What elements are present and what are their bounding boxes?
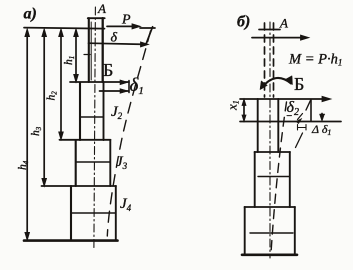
svg-text:J4: J4 (120, 196, 132, 213)
section 2 cross dash (81, 116, 104, 118)
top extension line level A (24, 28, 105, 29)
svg-text:h4: h4 (17, 160, 30, 170)
column a top cap (88, 17, 105, 19)
section b2 cross dash (258, 176, 289, 178)
column a section 1 left edge (double stroke) (88, 18, 90, 82)
small down arrow for delta-delta1 (321, 114, 323, 119)
moment arc (262, 78, 292, 88)
delta2 leader arrow (298, 114, 303, 120)
svg-text:δ: δ (111, 31, 118, 46)
column a section 4 right edge (115, 186, 117, 240)
column a section 4 left edge (70, 186, 72, 240)
svg-text:б): б) (237, 14, 250, 31)
section 1 cross tick (84, 54, 90, 56)
deflected top stroke (146, 27, 152, 44)
section 4 cross dash (72, 212, 115, 214)
deflected axis (dashed) diagram a (107, 31, 150, 236)
step 1 line + delta1 upper dimension line (70, 81, 129, 83)
svg-text:а): а) (24, 6, 37, 23)
small bracket mark under line (297, 125, 299, 131)
column a centerline (94, 7, 96, 248)
column b section 2 right edge (289, 152, 291, 207)
dimension line h4 (26, 31, 28, 238)
base line diagram a (24, 239, 118, 242)
svg-text:Б: Б (103, 60, 113, 80)
force P arrow (107, 25, 138, 27)
section 3 cross dash (76, 161, 109, 163)
removed top section (dashed) left edge (264, 23, 266, 97)
step line b2 (245, 206, 296, 208)
column b section 1 left edge (257, 99, 259, 152)
dimension line h3 (43, 31, 45, 184)
column b section 3 left edge (244, 207, 246, 255)
column a section 2 left edge (79, 83, 81, 140)
removed top section (dashed) right edge (273, 23, 275, 97)
delta1 end tick (128, 81, 130, 93)
x dimension vertical (243, 101, 245, 120)
deflected top tick (140, 27, 155, 29)
dimension line h2 (60, 31, 62, 138)
delta dimension line at level A (89, 43, 147, 44)
svg-text:x1: x1 (225, 100, 241, 111)
column b centerline (269, 22, 271, 258)
step 3 line with h3 extension (42, 185, 117, 187)
stray deflection dash (296, 133, 303, 148)
step 2 line with h2 extension (60, 139, 111, 141)
svg-text:M = P·h1: M = P·h1 (288, 52, 342, 68)
vertical tick at deflection reference (310, 100, 312, 122)
level x line (240, 121, 341, 123)
column b section 3 right edge (294, 207, 296, 255)
svg-text:P: P (121, 13, 131, 28)
level B line (240, 98, 328, 100)
step line b1 (255, 151, 291, 153)
svg-text:δ1: δ1 (130, 75, 144, 97)
dimension line h1 (75, 31, 77, 80)
svg-text:h1: h1 (63, 56, 76, 65)
column a section 3 right edge (109, 140, 111, 186)
svg-text:J2: J2 (111, 104, 123, 121)
column a section 1 right edge (102, 18, 104, 82)
deflected axis (dashed) diagram b (271, 102, 286, 250)
svg-text:А: А (279, 16, 288, 31)
svg-text:J3: J3 (116, 154, 128, 171)
column b section 2 left edge (254, 152, 256, 207)
base line diagram b (242, 254, 297, 257)
svg-text:Б: Б (294, 74, 304, 94)
section b3 cross dash (250, 232, 293, 234)
column b section 1 right edge (277, 99, 279, 152)
delta1 arrowheads (120, 80, 128, 85)
delta1 lower dimension line (100, 90, 129, 92)
svg-text:h3: h3 (30, 126, 43, 136)
svg-text:А: А (97, 1, 106, 16)
column a section 3 left edge (75, 140, 77, 186)
top cross tick at A (259, 29, 280, 31)
level A arrow line (252, 37, 306, 39)
svg-text:Δ δ1: Δ δ1 (311, 122, 331, 137)
column a section 2 right edge (103, 82, 105, 140)
svg-text:h2: h2 (46, 91, 59, 101)
